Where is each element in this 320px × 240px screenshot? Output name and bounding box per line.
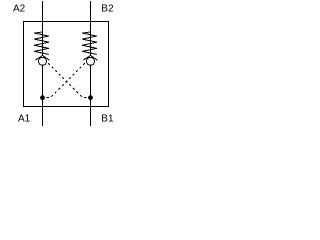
svg-text:B1: B1 xyxy=(101,113,114,124)
svg-text:B2: B2 xyxy=(101,4,114,15)
enclosure box (component envelope) xyxy=(24,22,109,107)
wire B2 line (right vertical, top to seat apex) xyxy=(90,1,92,56)
svg-text:A2: A2 xyxy=(13,4,26,15)
wire B1 line (right vertical, ball bottom to bottom edge) xyxy=(90,65,92,126)
spring of left check valve xyxy=(34,32,49,54)
node B1 junction dot xyxy=(88,95,93,100)
node A1 junction dot xyxy=(40,95,45,100)
pilot line from V1 ball to node B1 (dashed) xyxy=(47,61,91,97)
background xyxy=(0,0,128,128)
seat of right check valve V2 xyxy=(84,55,98,60)
wire A1 line (left vertical, ball bottom to bottom edge) xyxy=(42,65,44,126)
wire A2 line (left vertical, top to seat apex) xyxy=(42,1,44,56)
pilot line from V2 ball to node A1 (dashed) xyxy=(43,61,87,97)
ball of left check valve V1 xyxy=(39,57,47,65)
ball of right check valve V2 xyxy=(87,57,95,65)
svg-text:A1: A1 xyxy=(18,114,31,125)
spring of right check valve xyxy=(82,32,97,54)
seat of left check valve V1 xyxy=(36,55,50,60)
